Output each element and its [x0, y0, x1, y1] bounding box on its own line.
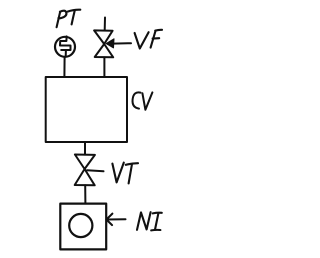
valve VT bowtie [75, 155, 95, 170]
arrow to VF label [108, 42, 132, 45]
arrow to NI label [106, 214, 112, 226]
wire CV box to VF valve [103, 57, 105, 77]
instrument NI box [60, 204, 106, 250]
NI inner circle [69, 214, 92, 237]
label CV [133, 92, 153, 109]
wire VT valve to NI box [84, 185, 86, 203]
vessel CV box [46, 77, 127, 142]
label NI [137, 212, 162, 230]
wire CV box to VT valve [84, 142, 86, 154]
label PT [57, 10, 81, 28]
valve VF stem top [104, 18, 106, 31]
valve VF bowtie [94, 30, 113, 44]
label VF [135, 30, 162, 49]
pressure transmitter PT circle [55, 37, 75, 57]
pointer line to VT label [87, 170, 104, 171]
wire PT circle to CV box [63, 57, 65, 77]
label VT [112, 163, 138, 184]
PT internal squiggle symbol [60, 36, 71, 50]
